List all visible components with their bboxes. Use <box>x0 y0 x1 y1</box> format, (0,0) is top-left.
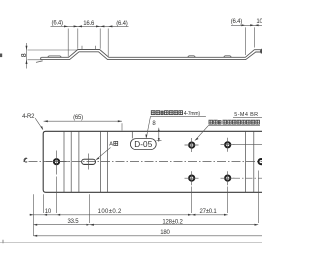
svg-text:128±0.2: 128±0.2 <box>162 219 183 225</box>
small vertical dimension 8 near D-05 <box>157 128 162 142</box>
svg-text:8: 8 <box>21 53 28 57</box>
hole row centerline right segment (top) <box>233 144 262 146</box>
profile: left end flange stub <box>36 61 43 63</box>
svg-text:10: 10 <box>45 209 52 215</box>
dimension (65) <box>44 121 122 130</box>
hole at (191.5,178.2) <box>185 171 199 185</box>
frame corner tick left <box>2 240 4 243</box>
label A hole with leader <box>95 141 117 160</box>
profile: burring boss bump over hole column x56 <box>48 56 62 57</box>
plan view outline <box>43 131 262 192</box>
profile: burring boss bump over hole column x191.5 <box>188 56 196 58</box>
hole at (191.5,145) <box>185 138 199 152</box>
svg-text:(6.4): (6.4) <box>116 21 128 27</box>
hole at (258.5,161.5) right edge <box>259 159 264 164</box>
svg-text:(6.4): (6.4) <box>52 20 64 26</box>
frame line bottom <box>0 242 262 244</box>
D-05 stamp box <box>130 139 156 150</box>
bottom dimension row 1: 10, 100±0.2, 27±0.1 <box>30 177 228 237</box>
svg-text:(6.4): (6.4) <box>231 19 243 25</box>
profile: burring boss bump over hole column x227.5 <box>224 56 232 58</box>
svg-text:100±0.2: 100±0.2 <box>98 209 122 215</box>
svg-text:4-R2: 4-R2 <box>22 114 35 120</box>
hole at (56.3,161.5) with crosshair <box>46 151 69 175</box>
main horizontal centerline <box>29 161 263 163</box>
note shelf lines and leader <box>196 117 262 139</box>
svg-text:D-05: D-05 <box>134 140 152 149</box>
top dimension group (6.4) 16.6 (6.4) <box>51 26 129 56</box>
profile: slot edge ticks on hat <box>82 46 95 50</box>
svg-text:27±0.1: 27±0.1 <box>199 209 217 215</box>
svg-text:A: A <box>109 142 113 148</box>
edge mark right profile <box>260 48 262 53</box>
cut text at left image edge <box>0 54 2 58</box>
left height dimension of profile <box>27 43 78 69</box>
profile view: strip bottom contour <box>42 52 262 60</box>
slot A (obround) <box>82 154 96 170</box>
hole at (227.5,178.2) <box>221 171 235 185</box>
note tap condition (kanji simulated) <box>209 120 259 124</box>
top-right dimension (6.4) 10 <box>231 25 262 55</box>
svg-text:10: 10 <box>256 19 262 25</box>
hole at (227.5,144.7) <box>221 138 235 152</box>
hole row centerline right segment (bottom) <box>233 177 262 179</box>
left edge tiny symbol <box>24 158 28 162</box>
svg-text:33.5: 33.5 <box>68 219 80 225</box>
svg-text:16.6: 16.6 <box>83 21 95 27</box>
profile view: strip top contour <box>42 50 262 58</box>
profile view: rounded left end cap <box>41 57 42 59</box>
plan bend lines <box>64 131 254 192</box>
bottom dimension row 3: 180 <box>34 235 263 237</box>
svg-text:(65): (65) <box>73 115 83 121</box>
svg-text:180: 180 <box>160 230 170 236</box>
engraving note (kanji simulated) with leader to D-05 <box>151 111 182 115</box>
bottom dimension row 2: 33.5, 128±0.2 <box>34 171 259 225</box>
